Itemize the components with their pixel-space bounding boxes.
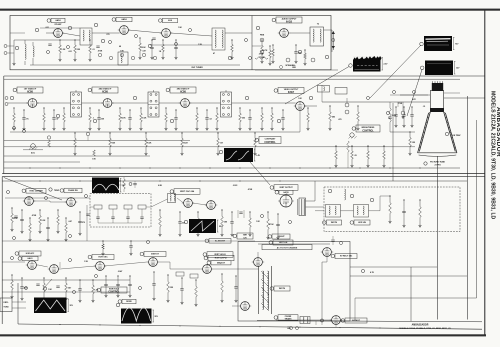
- svg-text:470: 470: [338, 118, 341, 121]
- svg-text:VHF TUNER: VHF TUNER: [191, 67, 203, 69]
- svg-text:4.7K: 4.7K: [263, 49, 268, 52]
- svg-text:RF AMP: RF AMP: [55, 23, 63, 26]
- svg-text:AGC: AGC: [31, 152, 36, 155]
- svg-text:CONTROL: CONTROL: [264, 142, 276, 144]
- svg-text:150K: 150K: [13, 218, 18, 220]
- svg-text:CONTROL: CONTROL: [108, 291, 120, 293]
- svg-text:AMBASSADOR: AMBASSADOR: [412, 324, 429, 327]
- svg-text:2ND VIDEO IF: 2ND VIDEO IF: [99, 89, 113, 91]
- svg-text:DRIVE: DRIVE: [126, 301, 132, 303]
- svg-text:VERT: VERT: [243, 235, 247, 237]
- svg-text:.1: .1: [93, 117, 95, 119]
- svg-text:.0033: .0033: [233, 185, 238, 187]
- svg-text:6CB6: 6CB6: [27, 91, 34, 93]
- svg-text:HOR AFC: HOR AFC: [26, 252, 35, 255]
- svg-text:AUDIO OUTPUT: AUDIO OUTPUT: [282, 18, 298, 21]
- svg-text:8.2K: 8.2K: [147, 142, 152, 144]
- svg-text:CONTRAST: CONTRAST: [265, 138, 277, 141]
- svg-text:SPEAKER: SPEAKER: [285, 64, 295, 67]
- svg-text:.05: .05: [354, 155, 357, 157]
- svg-text:HOR OUTPUT: HOR OUTPUT: [215, 258, 228, 260]
- svg-text:.0047: .0047: [118, 270, 123, 273]
- svg-text:B+ BOOST: B+ BOOST: [215, 240, 226, 242]
- svg-text:2.2K: 2.2K: [142, 117, 147, 119]
- svg-text:270: 270: [82, 222, 85, 224]
- svg-text:6AF4: 6AF4: [121, 18, 127, 21]
- svg-text:470K: 470K: [269, 223, 274, 226]
- svg-text:CONTROL: CONTROL: [362, 130, 374, 132]
- svg-text:.02: .02: [209, 118, 212, 120]
- svg-text:6CB6: 6CB6: [102, 91, 109, 93]
- svg-text:BRIGHTNESS: BRIGHTNESS: [362, 127, 375, 129]
- svg-text:6AF4: 6AF4: [55, 19, 61, 22]
- svg-text:470K: 470K: [248, 188, 253, 191]
- svg-text:HOR LIN: HOR LIN: [358, 222, 366, 224]
- svg-text:MODELS 21C2A, 21C2ALD, 9T30, L: MODELS 21C2A, 21C2ALD, 9T30, LD, 9B30, 9…: [489, 91, 495, 220]
- svg-text:6.8K: 6.8K: [158, 185, 163, 187]
- svg-text:6AQ5: 6AQ5: [283, 191, 289, 194]
- svg-text:1.5K: 1.5K: [94, 289, 99, 291]
- svg-text:.001: .001: [68, 51, 72, 53]
- svg-text:SYNC CLIPPER: SYNC CLIPPER: [29, 190, 43, 192]
- svg-text:6AX4GT: 6AX4GT: [352, 319, 361, 322]
- svg-text:120K: 120K: [121, 117, 126, 119]
- svg-text:VIDEO OUTPUT: VIDEO OUTPUT: [284, 89, 299, 91]
- svg-text:6BQ6GT: 6BQ6GT: [217, 263, 226, 265]
- svg-text:HEIGHT: HEIGHT: [277, 236, 285, 238]
- svg-text:47: 47: [213, 52, 215, 55]
- svg-text:1M: 1M: [220, 142, 223, 144]
- svg-text:DEFL: DEFL: [4, 302, 10, 304]
- svg-text:100K: 100K: [141, 47, 146, 49]
- svg-text:AC TO HOT CHASSIS: AC TO HOT CHASSIS: [277, 246, 298, 249]
- svg-text:470K: 470K: [32, 214, 37, 217]
- svg-text:.047: .047: [142, 50, 146, 53]
- svg-text:.047: .047: [68, 286, 72, 289]
- svg-text:270K: 270K: [259, 54, 264, 56]
- svg-text:.01: .01: [92, 49, 95, 51]
- svg-text:6AQ5: 6AQ5: [286, 20, 293, 23]
- svg-text:YOKE: YOKE: [3, 307, 9, 309]
- svg-text:4.7K: 4.7K: [370, 271, 375, 274]
- svg-text:TEMP: TEMP: [54, 190, 60, 192]
- svg-text:.01: .01: [423, 106, 426, 108]
- svg-text:6SN7GT: 6SN7GT: [151, 254, 160, 256]
- svg-text:390: 390: [242, 117, 245, 119]
- svg-text:VERT OUTPUT: VERT OUTPUT: [279, 187, 293, 189]
- svg-text:21YP4: 21YP4: [434, 164, 441, 167]
- svg-text:FINE: FINE: [260, 35, 265, 37]
- svg-text:270: 270: [106, 34, 109, 36]
- svg-text:3RD VIDEO IF: 3RD VIDEO IF: [177, 89, 191, 91]
- svg-text:WIDTH: WIDTH: [279, 288, 286, 290]
- svg-text:1ST VIDEO IF: 1ST VIDEO IF: [24, 89, 37, 91]
- svg-text:68: 68: [119, 46, 121, 48]
- svg-text:.0047: .0047: [183, 141, 188, 144]
- svg-text:1.5K: 1.5K: [84, 261, 89, 263]
- svg-text:1.5K: 1.5K: [61, 49, 66, 51]
- svg-text:ION TRAP: ION TRAP: [452, 134, 461, 137]
- svg-text:6AW7: 6AW7: [288, 91, 295, 94]
- svg-text:3.3K: 3.3K: [41, 220, 46, 222]
- svg-text:HV RECT 1B3: HV RECT 1B3: [340, 256, 352, 258]
- svg-text:470K: 470K: [98, 50, 103, 53]
- svg-text:HOR OSC: HOR OSC: [98, 257, 108, 259]
- svg-text:WIDTH: WIDTH: [331, 222, 338, 224]
- svg-text:VERT OSC 6S4: VERT OSC 6S4: [180, 190, 195, 193]
- svg-text:PHASE INV: PHASE INV: [68, 189, 78, 192]
- svg-text:6CB6: 6CB6: [180, 91, 187, 93]
- svg-text:T2: T2: [317, 24, 319, 26]
- svg-text:.047: .047: [68, 220, 72, 223]
- svg-text:PICTURE TUBE: PICTURE TUBE: [430, 162, 445, 164]
- svg-text:680: 680: [332, 116, 335, 118]
- svg-text:MODELS 21C2A, 21C2ALD, 9T30, L: MODELS 21C2A, 21C2ALD, 9T30, LD, 9B30, 9…: [399, 327, 451, 330]
- svg-text:270K: 270K: [398, 103, 403, 105]
